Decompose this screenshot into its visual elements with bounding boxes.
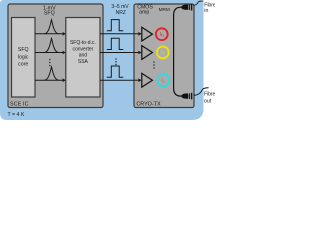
- svg-text:and: and: [79, 53, 88, 59]
- svg-text:SCE IC: SCE IC: [10, 101, 29, 107]
- svg-text:logic: logic: [18, 54, 29, 60]
- svg-text:λn: λn: [161, 78, 166, 84]
- svg-text:λ1: λ1: [160, 32, 165, 38]
- svg-text:λ2: λ2: [160, 50, 165, 56]
- svg-text:NRZ: NRZ: [116, 10, 126, 16]
- svg-text:core: core: [18, 62, 28, 68]
- svg-text:Fibre: Fibre: [204, 92, 215, 98]
- svg-text:SFQ: SFQ: [44, 11, 55, 17]
- svg-text:amp: amp: [139, 10, 149, 16]
- svg-text:3–5 mV: 3–5 mV: [111, 4, 129, 10]
- svg-text:SFQ: SFQ: [18, 47, 29, 53]
- svg-text:out: out: [204, 99, 212, 105]
- svg-text:MRM: MRM: [159, 7, 170, 12]
- svg-text:SFQ-to-d.c.: SFQ-to-d.c.: [70, 40, 96, 46]
- svg-text:SSA: SSA: [78, 59, 89, 65]
- svg-text:CRYO-TX: CRYO-TX: [136, 101, 161, 107]
- svg-text:converter: converter: [72, 46, 93, 52]
- svg-text:in: in: [204, 8, 208, 14]
- svg-text:T = 4 K: T = 4 K: [8, 112, 25, 118]
